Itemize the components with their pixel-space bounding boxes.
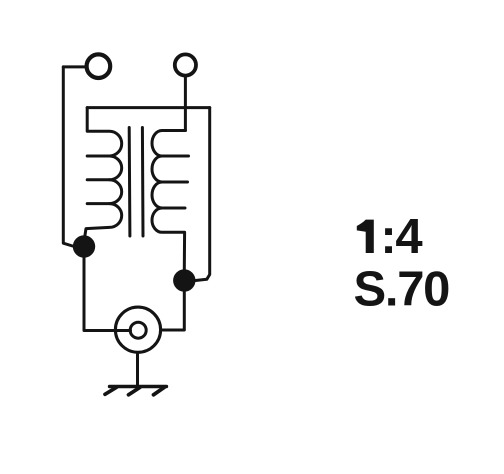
ground symbol: [105, 387, 167, 395]
wire: top horizontal: [87, 106, 210, 109]
winding primary (left coil of transformer T1): [84, 108, 122, 242]
wire: right outer rail down to right node: [196, 108, 210, 281]
core line right: [141, 128, 145, 237]
wire: left terminal to left outer rail: [63, 65, 85, 68]
coax connector J1 center pin: [130, 322, 146, 338]
svg-text::4: :4: [380, 210, 422, 264]
wire: right node down to coax shield: [162, 291, 185, 330]
wire: left coil retrace 1: [87, 155, 109, 158]
label: turns ratio digit 1: [357, 220, 374, 253]
wire: right coil retrace 1: [163, 155, 189, 158]
wire: left coil retrace 2: [87, 178, 109, 181]
node: left junction dot: [73, 235, 95, 257]
wire: left coil retrace 3: [87, 202, 109, 205]
wire: right coil retrace 3: [163, 207, 186, 210]
svg-text:S.70: S.70: [354, 263, 450, 317]
terminal circle right (balanced output B): [175, 54, 196, 75]
wire: coax shield down to ground: [136, 353, 139, 386]
wire: left node down to coax center pin: [84, 256, 131, 331]
terminal circle left (balanced output A): [87, 54, 111, 78]
wire: right terminal down to winding top: [184, 76, 187, 130]
winding secondary (right coil of transformer T1): [152, 131, 185, 270]
core line left: [128, 128, 132, 237]
node: right junction dot: [173, 269, 195, 291]
wire: right coil retrace 2: [163, 181, 188, 184]
coax connector J1 outer shield: [115, 307, 160, 352]
wire: left outer rail down to left node: [63, 67, 72, 246]
